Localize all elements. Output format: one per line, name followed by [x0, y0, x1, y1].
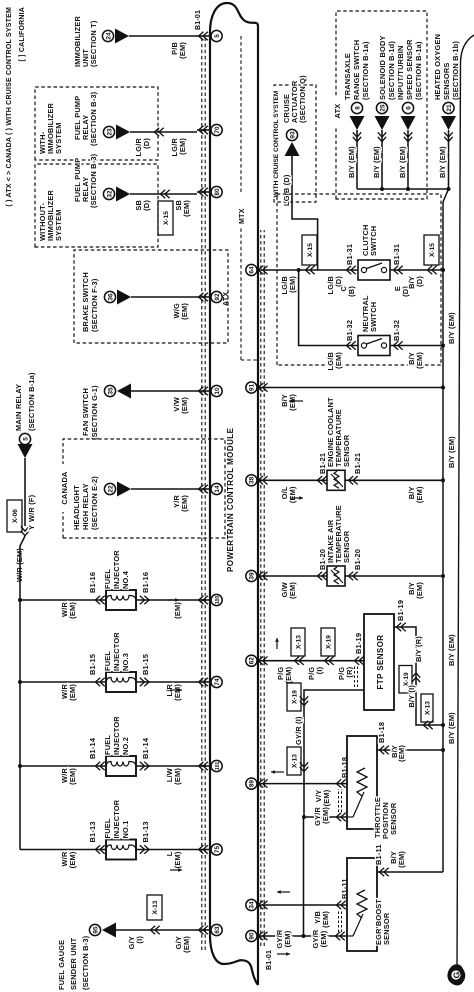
svg-text:(EM): (EM)	[173, 602, 182, 619]
chevron B1-18 on wiper wire	[336, 813, 341, 821]
svg-text:X-13: X-13	[152, 900, 159, 914]
svg-text:70: 70	[214, 126, 221, 134]
connector circle 32	[103, 188, 114, 199]
connector X-13 box GY/R	[287, 747, 301, 775]
chevron X-19 on GY/R wire	[300, 701, 308, 706]
svg-text:B/Y (EM): B/Y (EM)	[398, 146, 407, 178]
svg-text:(EM): (EM)	[415, 352, 424, 369]
triangle arrow oxygen sensors	[441, 116, 456, 130]
svg-text:(EM): (EM)	[173, 851, 182, 868]
svg-text:B1-13: B1-13	[88, 821, 97, 842]
triangle arrow from relay 32	[116, 187, 130, 202]
junction dot TPS wiper on GY/R net	[302, 815, 306, 819]
svg-text:SENSOR: SENSOR	[342, 530, 351, 563]
connector X-15 box	[158, 201, 173, 235]
ground symbol G	[447, 964, 465, 985]
svg-text:FUEL GAUGE: FUEL GAUGE	[57, 940, 66, 990]
svg-text:(SECTION B-1d): (SECTION B-1d)	[387, 41, 396, 100]
PCM pin 34 (bottom row)	[246, 899, 257, 910]
wire G/W from pin 39	[269, 575, 327, 577]
PCM pin 5 (top row)	[211, 30, 222, 41]
svg-text:B1-31: B1-31	[392, 244, 401, 265]
fuel injector No.4 symbol	[106, 590, 136, 610]
svg-text:(SECTION B-3): (SECTION B-3)	[89, 153, 98, 208]
svg-text:(EM): (EM)	[68, 684, 77, 701]
wire GY/R from pin 90 to EGR wiper	[269, 935, 347, 937]
chevron B1-18 on TPS return	[379, 746, 384, 754]
wire B/Y from pin 91 to ground trunk	[269, 387, 443, 389]
svg-text:X-15: X-15	[163, 211, 170, 225]
fuel injector No.1 symbol	[106, 840, 136, 860]
svg-text:(D): (D)	[334, 276, 343, 287]
chevron below injector 4	[140, 596, 145, 604]
branch wire to neutral switch	[299, 270, 358, 346]
fuel injector No.3 symbol	[106, 672, 136, 692]
chevron speed sensor	[404, 137, 412, 142]
svg-text:B/Y (R): B/Y (R)	[414, 636, 423, 662]
svg-text:(EM): (EM)	[182, 200, 191, 217]
svg-text:(EM): (EM)	[397, 745, 406, 762]
PCM pin 63 (top row)	[211, 924, 222, 935]
engine coolant temperature sensor symbol	[327, 470, 345, 490]
svg-text:90: 90	[249, 932, 256, 940]
junction dot pin90 on GY/R net	[302, 934, 306, 938]
svg-text:(EM): (EM)	[68, 768, 77, 785]
fuel injector No.3 feed wire	[20, 681, 106, 683]
svg-text:INJECTOR: INJECTOR	[112, 799, 121, 838]
svg-text:FTP SENSOR: FTP SENSOR	[376, 635, 385, 690]
svg-text:21: 21	[446, 104, 453, 112]
svg-text:(D): (D)	[142, 200, 151, 211]
fuel injector No.2 feed wire	[20, 765, 106, 767]
svg-text:25: 25	[379, 104, 386, 112]
svg-text:(EM): (EM)	[397, 851, 406, 868]
svg-text:X-19: X-19	[325, 635, 332, 649]
PCM pin 70 (top row)	[211, 124, 222, 135]
chevron above injector 2	[95, 762, 100, 770]
PCM module body outline (bottom edge)	[257, 26, 259, 985]
svg-text:63: 63	[214, 926, 221, 934]
svg-text:X-15: X-15	[307, 243, 314, 257]
chevron below neutral switch	[393, 341, 398, 349]
svg-text:B1-16: B1-16	[88, 572, 97, 593]
svg-text:(EM): (EM)	[283, 930, 292, 947]
connector X-13 box on B/Y return	[421, 694, 433, 722]
svg-text:POWERTRAIN CONTROL MODULE: POWERTRAIN CONTROL MODULE	[226, 427, 235, 572]
chevron at X-06	[21, 531, 29, 536]
connector circle 95	[89, 924, 100, 935]
connector circle 23	[103, 126, 114, 137]
junction dot pin64 branch	[297, 268, 301, 272]
chevron at X-15	[160, 190, 165, 198]
svg-text:5: 5	[22, 437, 29, 441]
connector X-15 box (lower)	[424, 235, 439, 265]
wire B/Y from ECT sensor to trunk	[345, 479, 443, 481]
svg-text:(D): (D)	[142, 138, 151, 149]
svg-text:FUEL: FUEL	[103, 818, 112, 838]
FTP B/Y return wire	[394, 627, 443, 725]
svg-text:38: 38	[249, 476, 256, 484]
svg-text:(D): (D)	[415, 276, 424, 287]
TPS GY/R wiper wire	[304, 816, 347, 818]
connector X-15 box (clutch side)	[302, 235, 317, 265]
PCM pin 101 (top row)	[211, 760, 222, 771]
triangle arrow from relay 23	[116, 125, 130, 140]
svg-text:NO.2: NO.2	[121, 737, 130, 755]
svg-text:74: 74	[214, 678, 221, 686]
svg-text:(SECTION F-3): (SECTION F-3)	[90, 278, 99, 332]
svg-text:MTX: MTX	[239, 208, 246, 224]
junction dot speed sensor on bus	[406, 187, 410, 191]
connector circle 22	[104, 483, 115, 494]
chevron at box edge	[154, 128, 159, 136]
wire O/L from pin 38	[269, 479, 327, 481]
dashed link between B1-19 chevrons	[354, 665, 356, 687]
svg-text:B/Y (EM): B/Y (EM)	[447, 634, 456, 666]
wire B/Y speed sensor	[407, 130, 409, 189]
flow arrow pin 62	[276, 638, 278, 649]
chevron above injector 3	[95, 678, 100, 686]
svg-text:(I): (I)	[315, 666, 324, 674]
flow arrow on injector 4 wire	[168, 599, 179, 601]
svg-text:(EM): (EM)	[178, 138, 187, 155]
PCM left-end wavy break	[210, 935, 258, 985]
svg-text:B1-21: B1-21	[353, 453, 362, 474]
svg-text:(R): (R)	[345, 666, 354, 677]
svg-text:X-13: X-13	[291, 754, 298, 768]
chevron X-19 on B/Y return	[412, 677, 420, 682]
svg-text:(I): (I)	[135, 936, 144, 944]
svg-text:10: 10	[214, 387, 221, 395]
wire B/Y from IAT sensor to trunk	[345, 575, 443, 577]
svg-text:(EM): (EM)	[322, 789, 331, 806]
junction dot injector 2 feed	[18, 764, 22, 768]
TPS B/Y return to trunk	[377, 749, 443, 751]
svg-text:SENSOR: SENSOR	[342, 434, 351, 467]
PCM pin 75 (top row)	[211, 844, 222, 855]
svg-text:X-19: X-19	[403, 672, 410, 686]
svg-text:X-15: X-15	[429, 243, 436, 257]
svg-text:(SECTION G-1): (SECTION G-1)	[90, 385, 99, 440]
svg-text:(SECTION T): (SECTION T)	[89, 20, 98, 67]
svg-text:(SECTION B-3): (SECTION B-3)	[81, 935, 90, 990]
junction dot solenoid on bus	[380, 187, 384, 191]
triangle arrow from main relay	[18, 444, 33, 458]
PCM pin 64 (bottom row)	[246, 264, 257, 275]
svg-text:B1-15: B1-15	[141, 654, 150, 675]
B/Y ground trunk wire	[443, 189, 449, 872]
svg-text:(EM): (EM)	[182, 936, 191, 953]
ground wire to G point	[457, 35, 474, 968]
PCM pin 74 (top row)	[211, 676, 222, 687]
triangle arrow from relay 22	[117, 482, 131, 497]
PCM pin 38 (bottom row)	[246, 475, 257, 486]
svg-text:101: 101	[215, 762, 221, 771]
connector rail above PCM (dashed)	[201, 36, 203, 950]
PCM right-end wavy break	[210, 3, 258, 32]
fuel injector No.2 symbol	[106, 756, 136, 776]
chevron B1-21 lower	[348, 476, 353, 484]
PCM pin 14 (top row)	[211, 483, 222, 494]
wire V/Y from pin 89	[269, 783, 347, 785]
svg-text:W/R (F): W/R (F)	[27, 494, 36, 522]
svg-text:ATX: ATX	[333, 104, 342, 119]
connector circle 93	[286, 129, 297, 140]
svg-text:22: 22	[107, 485, 114, 493]
PCM pin 92 (top row)	[211, 291, 222, 302]
svg-text:NO.1: NO.1	[121, 820, 130, 838]
svg-text:SYSTEM: SYSTEM	[54, 122, 63, 154]
chevron B1-11 pin34	[336, 901, 341, 909]
chevron B1-20 upper	[317, 572, 322, 580]
dashed link between B1-11 chevrons	[338, 910, 340, 932]
svg-text:FAN SWITCH: FAN SWITCH	[81, 388, 90, 436]
PCM pin 39 (bottom row)	[246, 570, 257, 581]
svg-text:B1-16: B1-16	[141, 572, 150, 593]
svg-text:(EM): (EM)	[321, 911, 330, 928]
chevron X-19 pin62	[324, 657, 329, 665]
svg-text:B/Y (EM): B/Y (EM)	[347, 146, 356, 178]
junction dot oxygen/trunk	[447, 187, 451, 191]
chevron at neutral connector B1-32	[346, 341, 351, 349]
svg-text:CANADA: CANADA	[60, 471, 69, 505]
EGR B/Y return wire	[377, 871, 443, 873]
chevron B1-21 upper	[317, 476, 322, 484]
PCM pin 89 (bottom row)	[246, 778, 257, 789]
svg-text:(SECTION B-1a): (SECTION B-1a)	[27, 372, 36, 431]
wire B/Y transaxle range switch	[356, 130, 358, 189]
flow arrow injector 1	[170, 869, 182, 871]
junction dot ECT	[441, 478, 445, 482]
triangle arrow speed sensor	[401, 116, 416, 130]
svg-text:(EM): (EM)	[180, 303, 189, 320]
svg-text:(EM): (EM)	[288, 276, 297, 293]
chevron at X-15 clutch	[305, 266, 310, 274]
svg-text:(EM): (EM)	[173, 684, 182, 701]
chevron at X-13	[150, 926, 155, 934]
svg-text:X-13: X-13	[295, 635, 302, 649]
connector X-19 box on B/Y return	[399, 666, 412, 694]
triangle arrow solenoid body	[375, 116, 390, 130]
chevron transaxle range switch	[353, 137, 361, 142]
svg-text:89: 89	[249, 780, 256, 788]
svg-text:SWITCH: SWITCH	[369, 302, 378, 332]
svg-text:24: 24	[105, 32, 112, 40]
wire SB to pin 80	[130, 193, 197, 195]
chevron at lower X-15	[427, 266, 432, 274]
wire G/Y to pin 63	[116, 929, 197, 931]
FTP sensor GY/R wire	[304, 690, 364, 817]
chevron below injector 3	[140, 678, 145, 686]
svg-text:(EM): (EM)	[319, 930, 328, 947]
svg-text:(EM): (EM)	[321, 807, 330, 824]
flow arrow pin 34	[277, 891, 290, 893]
svg-text:NO.3: NO.3	[121, 653, 130, 671]
MTX variant dashed divider inside PCM	[240, 36, 242, 192]
chevron B1-19 on B/Y return	[396, 623, 401, 631]
dashed box WITH-IMMOBILIZER SYSTEM	[35, 87, 158, 160]
flow arrow near X-13	[271, 771, 284, 773]
PCM pin 100 (top row)	[211, 594, 222, 605]
svg-text:(EM): (EM)	[173, 768, 182, 785]
PCM pin 62 (bottom row)	[246, 655, 257, 666]
wire to PCM pin, injector 4	[136, 599, 197, 601]
svg-text:B/Y (EM): B/Y (EM)	[447, 312, 456, 344]
junction dot IAT	[441, 574, 445, 578]
main relay reference circle 5	[19, 433, 30, 444]
svg-text:36: 36	[107, 293, 114, 301]
connector X-06 box	[7, 500, 22, 532]
svg-text:(SECTION B-1b): (SECTION B-1b)	[451, 41, 460, 100]
svg-text:(SECTION E-2): (SECTION E-2)	[90, 476, 99, 530]
svg-text:75: 75	[214, 846, 221, 854]
svg-text:34: 34	[249, 901, 256, 909]
wire to PCM pin, injector 3	[136, 681, 197, 683]
fuel injector No.1 feed wire	[20, 849, 106, 851]
svg-text:(EM): (EM)	[68, 602, 77, 619]
svg-text:BRAKE SWITCH: BRAKE SWITCH	[81, 272, 90, 332]
svg-text:B1-01: B1-01	[195, 10, 202, 30]
wire P/B to pin 5	[129, 35, 197, 37]
dashed box WITHOUT-IMMOBILIZER SYSTEM	[35, 164, 158, 247]
connector circle 6	[402, 102, 413, 113]
svg-text:SENDER UNIT: SENDER UNIT	[69, 937, 78, 990]
dashed box ATX around brake switch	[74, 250, 228, 343]
PCM pin 91 (bottom row)	[246, 382, 257, 393]
connector X-13 box pin62	[291, 628, 305, 656]
svg-text:(EM): (EM)	[415, 486, 424, 503]
svg-text:INPUT/TURBIN: INPUT/TURBIN	[396, 45, 405, 100]
chevron B1-11 on EGR wiper wire	[335, 932, 340, 940]
svg-text:91: 91	[249, 384, 256, 392]
svg-text:5: 5	[214, 34, 221, 38]
wire B/Y oxygen sensors	[448, 130, 450, 189]
chevron above injector 4	[95, 596, 100, 604]
svg-text:B1-14: B1-14	[88, 737, 97, 759]
wire W/G to pin 92	[131, 296, 197, 298]
svg-text:(EM): (EM)	[68, 851, 77, 868]
svg-text:( ) ATX < > CANADA ( ) WIT: ( ) ATX < > CANADA ( ) WITH CRUISE CONTR…	[6, 7, 13, 207]
svg-text:100: 100	[215, 596, 221, 605]
wire LG/R to pin 70	[130, 131, 197, 133]
dashed box MTX around clutch/neutral switches	[277, 194, 441, 365]
svg-text:64: 64	[249, 266, 256, 274]
triangle arrow toward fuel gauge sender	[102, 923, 116, 938]
svg-text:ATX: ATX	[223, 292, 230, 306]
svg-text:B/Y (EM): B/Y (EM)	[447, 712, 456, 744]
connector circle 35	[104, 385, 115, 396]
svg-text:WITH CRUISE CONTROL SYSTEM: WITH CRUISE CONTROL SYSTEM	[273, 90, 280, 197]
wire P/G from pin 62	[269, 660, 364, 662]
svg-text:SWITCH: SWITCH	[369, 226, 378, 256]
svg-text:HEATED OXYGEN: HEATED OXYGEN	[433, 34, 442, 100]
svg-text:SENSOR: SENSOR	[389, 802, 398, 835]
clutch switch box	[358, 260, 390, 280]
svg-text:B1-11: B1-11	[374, 844, 383, 865]
svg-text:80: 80	[214, 188, 221, 196]
svg-text:B1-18: B1-18	[377, 722, 386, 743]
svg-text:B1-32: B1-32	[392, 320, 401, 341]
flow arrow injector 3	[170, 689, 182, 691]
connector circle 24	[102, 30, 113, 41]
svg-text:(EM): (EM)	[180, 495, 189, 512]
W/R supply bus to injectors	[20, 536, 25, 850]
wire Y/B from pin 34	[269, 904, 347, 906]
dashed box WITH CRUISE CONTROL SYSTEM	[274, 85, 316, 202]
intake air temperature sensor symbol	[327, 566, 345, 586]
svg-text:14: 14	[214, 485, 221, 493]
svg-text:SOLENOID BODY: SOLENOID BODY	[378, 35, 387, 100]
flow arrow pin 90	[277, 953, 290, 955]
svg-text:B1-15: B1-15	[88, 654, 97, 675]
chevron B1-18 pin89	[336, 779, 341, 787]
svg-text:(B): (B)	[347, 286, 356, 297]
EGR boost sensor box	[347, 858, 377, 951]
svg-text:RANGE SWITCH: RANGE SWITCH	[352, 40, 361, 100]
junction dot FTP	[441, 723, 445, 727]
svg-text:(EM): (EM)	[178, 42, 187, 59]
GY/R net wire from FTP/TPS	[303, 817, 305, 936]
junction dot neutral return	[441, 344, 445, 348]
PCM pin 10 (top row)	[211, 385, 222, 396]
svg-text:B/Y (EM): B/Y (EM)	[372, 146, 381, 178]
chevron at clutch connector B1-31	[346, 266, 351, 274]
chevron X-13 pin62	[294, 657, 299, 665]
svg-text:SENSORS: SENSORS	[442, 62, 451, 100]
svg-text:8: 8	[354, 106, 361, 110]
junction dot TPS	[441, 748, 445, 752]
svg-text:TRANSAXLE: TRANSAXLE	[343, 53, 352, 100]
svg-text:B/Y (EM): B/Y (EM)	[447, 436, 456, 468]
triangle arrow transaxle range switch	[350, 116, 365, 130]
PCM pin 80 (top row)	[211, 186, 222, 197]
svg-text:(EM): (EM)	[284, 666, 293, 683]
svg-text:B1-13: B1-13	[141, 821, 150, 842]
chevron B1-19 pin62	[354, 657, 359, 665]
svg-text:(SECTION B-3): (SECTION B-3)	[89, 91, 98, 146]
svg-text:B1-19: B1-19	[354, 633, 363, 654]
wire LG/B (D) from cruise actuator	[292, 156, 318, 270]
triangle arrow toward cruise actuator	[285, 142, 300, 156]
svg-text:B1-14: B1-14	[141, 737, 150, 759]
svg-text:B/Y (I): B/Y (I)	[407, 685, 416, 708]
flow arrow pin 91	[289, 400, 303, 402]
FTP sensor box	[364, 614, 394, 710]
junction dot injector 4 feed	[18, 598, 22, 602]
connector X-13 box	[147, 895, 162, 920]
svg-text:(EM): (EM)	[334, 352, 343, 369]
dashed link between B1-18 chevrons	[338, 789, 340, 812]
svg-text:FUEL: FUEL	[103, 735, 112, 755]
svg-text:FUEL: FUEL	[103, 569, 112, 589]
connector circle 25	[376, 102, 387, 113]
connector circle 36	[104, 291, 115, 302]
chevron B1-11 on EGR return	[379, 868, 384, 876]
svg-text:(SECTION B-1a): (SECTION B-1a)	[361, 41, 370, 100]
svg-text:(EM): (EM)	[180, 397, 189, 414]
svg-text:23: 23	[106, 128, 113, 136]
svg-text:HEADLIGHT: HEADLIGHT	[72, 485, 81, 530]
svg-text:NO.4: NO.4	[121, 570, 130, 589]
svg-text:B1-19: B1-19	[396, 600, 405, 621]
svg-text:(EM): (EM)	[415, 582, 424, 599]
connector circle 8	[351, 102, 362, 113]
svg-text:(EM): (EM)	[288, 582, 297, 599]
svg-text:B/Y (EM): B/Y (EM)	[438, 146, 447, 178]
junction dot pin91	[441, 386, 445, 390]
connector rail below PCM (dashed)	[260, 230, 262, 946]
fuel injector No.4 feed wire	[20, 599, 106, 601]
